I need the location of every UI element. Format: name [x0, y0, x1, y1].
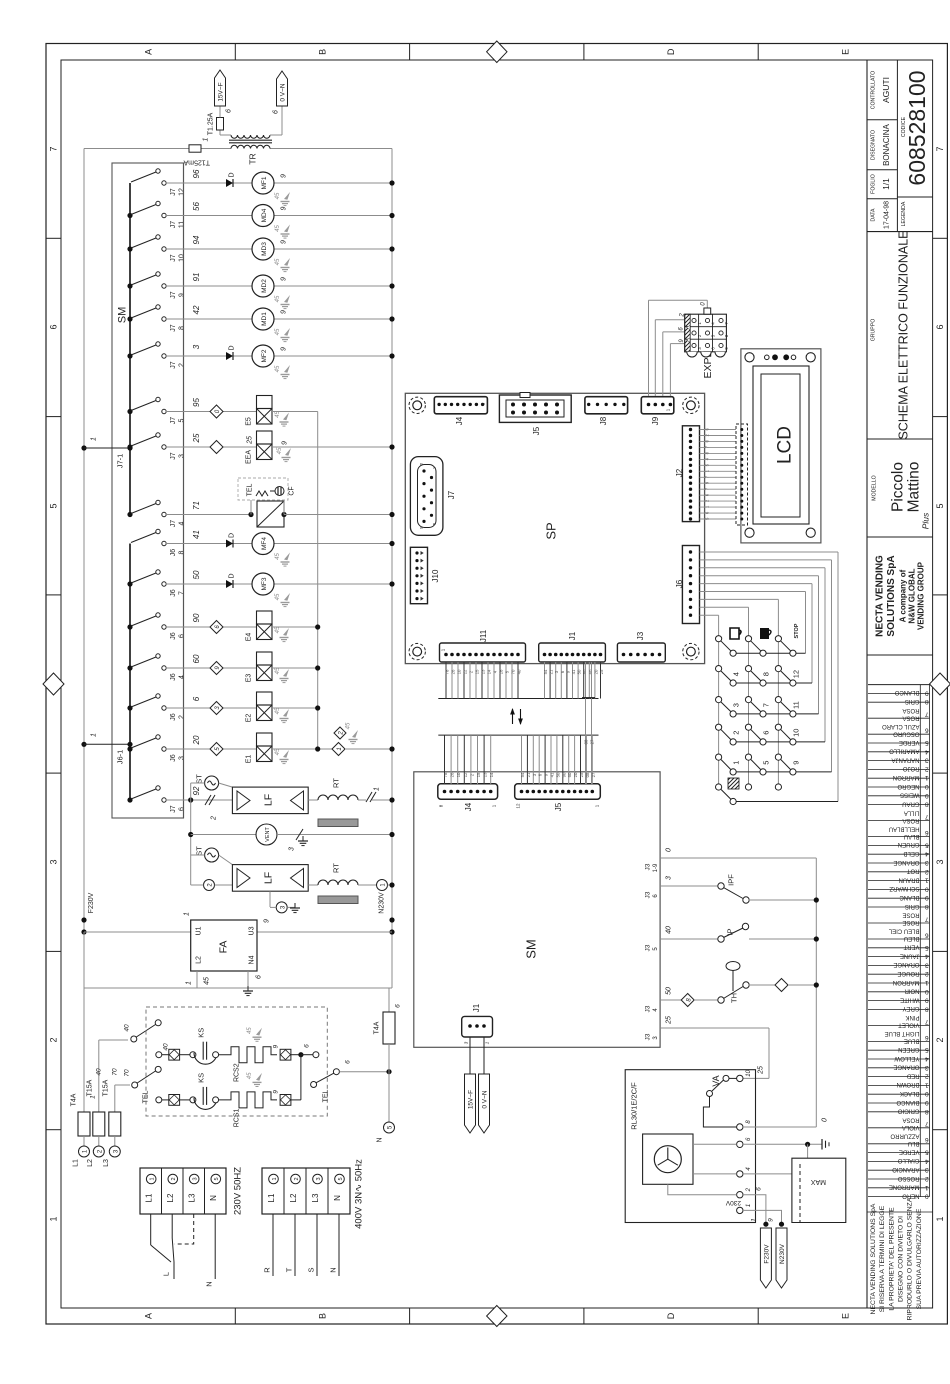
- svg-text:6: 6: [755, 1187, 762, 1191]
- switch J7-8: [127, 316, 132, 321]
- filter FA: [191, 920, 257, 971]
- svg-text:BLANCO: BLANCO: [894, 689, 919, 695]
- key row5 col1: [730, 769, 736, 775]
- svg-text:2: 2: [339, 731, 345, 736]
- svg-text:GRUPPO: GRUPPO: [870, 319, 876, 341]
- svg-text:E4: E4: [245, 633, 252, 642]
- svg-text:3: 3: [935, 859, 945, 864]
- svg-text:45: 45: [275, 225, 281, 232]
- wires bundle to J5 SM: [521, 735, 523, 784]
- centre registration diamond top: [487, 41, 507, 63]
- switch J6-7: [127, 581, 132, 586]
- svg-text:3: 3: [925, 859, 929, 866]
- svg-text:NECTA VENDING SOLUTIONS SpA: NECTA VENDING SOLUTIONS SpA: [870, 1203, 877, 1314]
- motor MF2: [252, 345, 274, 367]
- motor MF1: [252, 172, 274, 194]
- svg-text:9: 9: [280, 206, 287, 210]
- legend row 3 ORANGE: [868, 862, 930, 864]
- svg-text:J7: J7: [170, 361, 177, 369]
- svg-text:N: N: [376, 1137, 383, 1142]
- svg-text:78: 78: [445, 669, 450, 674]
- svg-text:GREY: GREY: [902, 1005, 919, 1011]
- svg-text:12: 12: [463, 772, 468, 777]
- svg-text:MD2: MD2: [261, 279, 268, 293]
- svg-text:92: 92: [192, 786, 201, 795]
- capacitor CF: [270, 490, 276, 492]
- title block frame: [866, 60, 868, 1308]
- svg-text:400V 3N∿ 50Hz: 400V 3N∿ 50Hz: [353, 1159, 364, 1229]
- svg-text:3: 3: [925, 1166, 929, 1173]
- svg-text:1: 1: [202, 137, 209, 141]
- flag 15V~F top: [215, 70, 226, 106]
- svg-text:TEL: TEL: [246, 483, 253, 496]
- svg-text:ROSA: ROSA: [902, 817, 919, 823]
- svg-text:BLEU: BLEU: [904, 935, 920, 941]
- svg-text:A company of: A company of: [898, 569, 907, 622]
- centre registration diamond bottom: [487, 1306, 507, 1327]
- svg-text:NOIR: NOIR: [904, 988, 920, 994]
- svg-text:12: 12: [463, 669, 468, 674]
- wire row MF3: [166, 583, 252, 585]
- legend row 8 GRIS: [868, 906, 930, 908]
- svg-text:5: 5: [178, 418, 185, 422]
- svg-text:T: T: [285, 1267, 294, 1272]
- wire row MD1: [166, 318, 252, 320]
- svg-text:1: 1: [91, 437, 98, 441]
- legend row 7 LILLA/ROSA: [868, 820, 930, 822]
- svg-text:2: 2: [935, 1037, 945, 1042]
- svg-text:BLU: BLU: [908, 1140, 920, 1146]
- svg-text:26: 26: [450, 772, 455, 777]
- legend row 0 SCHWARZ: [868, 888, 930, 890]
- svg-text:MF2: MF2: [261, 349, 268, 362]
- key row5 col2: [760, 769, 766, 775]
- svg-text:J7: J7: [170, 417, 177, 425]
- svg-text:CONTROLLATO: CONTROLLATO: [870, 71, 876, 109]
- svg-text:AMARILLO: AMARILLO: [889, 748, 920, 754]
- svg-text:VIOLA: VIOLA: [902, 1124, 920, 1130]
- heater LF lower: [232, 865, 308, 892]
- svg-text:9: 9: [280, 310, 287, 314]
- svg-text:IPF: IPF: [727, 874, 736, 886]
- wires J1 to flags: [469, 1037, 471, 1074]
- svg-text:J3: J3: [636, 631, 645, 640]
- svg-text:L: L: [162, 1272, 171, 1276]
- connector J8 SP: [585, 397, 628, 414]
- key row3 col3: [790, 711, 796, 717]
- legend row 5 GRUEN: [868, 844, 930, 846]
- fuse T1.25A: [217, 118, 224, 131]
- svg-text:J3: J3: [644, 863, 651, 870]
- svg-text:5: 5: [925, 1149, 929, 1156]
- svg-text:25: 25: [246, 436, 253, 445]
- svg-text:FA: FA: [218, 941, 230, 954]
- wire phase corner bottom: [83, 932, 85, 988]
- wire row MF2: [166, 355, 252, 357]
- legend row 0 NERO: [868, 1196, 930, 1198]
- svg-text:1: 1: [732, 761, 741, 765]
- svg-text:MF1: MF1: [261, 176, 268, 189]
- legend row 5 VERT: [868, 947, 930, 949]
- svg-text:MARRONE: MARRONE: [889, 1184, 920, 1190]
- svg-text:4: 4: [925, 1157, 929, 1164]
- svg-text:ARANCIO: ARANCIO: [892, 1166, 920, 1172]
- legend row 9 WHITE: [868, 1000, 930, 1002]
- mounting holes SP: [409, 397, 425, 413]
- legend row 6 HELLBLAU/BLAU: [868, 836, 930, 838]
- connector J5 SP: [499, 395, 571, 422]
- svg-text:45: 45: [247, 1072, 253, 1079]
- legend row 8 GREY: [868, 1008, 930, 1010]
- svg-text:25: 25: [666, 1016, 673, 1025]
- connector J4 SM: [438, 784, 498, 799]
- svg-text:SCHEMA ELETTRICO FUNZIONALE: SCHEMA ELETTRICO FUNZIONALE: [896, 230, 910, 439]
- key icon drink1: [730, 628, 741, 639]
- cable direction arrows: [512, 709, 514, 724]
- diode D row MF3: [226, 580, 233, 588]
- svg-text:6: 6: [272, 110, 279, 114]
- svg-text:50: 50: [555, 772, 560, 777]
- flag 0 V~N top: [277, 71, 288, 106]
- svg-text:45: 45: [275, 328, 281, 335]
- svg-text:J6-1: J6-1: [116, 750, 125, 765]
- svg-text:3: 3: [193, 1177, 199, 1180]
- wire row MF1: [166, 182, 252, 184]
- svg-text:1: 1: [49, 1216, 59, 1221]
- svg-text:TEL: TEL: [322, 1089, 329, 1102]
- switch J6-2: [127, 705, 132, 710]
- svg-text:J6: J6: [170, 754, 177, 762]
- key row1 col3: [790, 650, 796, 656]
- svg-text:2: 2: [925, 970, 929, 977]
- legend row 4 AMARILLO: [868, 751, 930, 753]
- svg-text:50: 50: [666, 987, 673, 995]
- svg-text:J3: J3: [644, 1005, 651, 1012]
- svg-text:LF: LF: [263, 794, 275, 806]
- svg-text:56: 56: [192, 202, 201, 211]
- svg-text:45: 45: [346, 722, 352, 729]
- svg-text:9: 9: [272, 1090, 279, 1094]
- svg-text:ORANGE: ORANGE: [893, 961, 919, 967]
- fan VENT: [190, 800, 192, 885]
- ground tap 3 lower: [269, 891, 271, 907]
- svg-text:14: 14: [489, 772, 494, 777]
- svg-text:LILLA: LILLA: [904, 809, 920, 815]
- svg-text:90: 90: [561, 772, 566, 777]
- svg-text:L3: L3: [103, 1159, 110, 1167]
- legend row 5 VERDE: [868, 742, 930, 744]
- wire row MD4: [166, 215, 252, 217]
- svg-text:MAX: MAX: [811, 1178, 827, 1185]
- svg-text:6: 6: [178, 807, 185, 811]
- svg-text:N4: N4: [248, 955, 255, 964]
- svg-text:OSCURO: OSCURO: [893, 730, 920, 736]
- svg-text:J1: J1: [568, 631, 577, 640]
- svg-text:0: 0: [925, 885, 929, 892]
- switch TEL 70 contact: [115, 1084, 130, 1086]
- solenoid valve E2: [257, 692, 273, 705]
- svg-text:D: D: [666, 1312, 676, 1319]
- svg-text:21: 21: [549, 669, 554, 674]
- wires J1 to bundle: [544, 662, 546, 699]
- svg-text:GIALLO: GIALLO: [897, 1157, 919, 1163]
- svg-text:RL30/1E/2C/F: RL30/1E/2C/F: [630, 1082, 639, 1130]
- contact TEL aux: [238, 478, 288, 500]
- svg-text:VERT: VERT: [903, 944, 919, 950]
- terminals L1 L2 L3 fused: [83, 1136, 85, 1146]
- key row4 col2: [760, 739, 766, 745]
- RL30 pin 4 wire to MAX: [743, 1173, 792, 1175]
- svg-text:VERDE: VERDE: [899, 1148, 920, 1154]
- switch J7-4: [127, 512, 132, 517]
- centre registration diamond left: [43, 673, 64, 695]
- svg-text:9: 9: [280, 347, 287, 351]
- legend row 9 BLANCO: [868, 692, 930, 694]
- svg-text:D: D: [228, 573, 235, 578]
- svg-text:1: 1: [183, 912, 190, 916]
- svg-text:NERO: NERO: [902, 1192, 920, 1198]
- svg-text:15: 15: [475, 669, 480, 674]
- svg-text:RT: RT: [332, 778, 341, 788]
- svg-text:54: 54: [543, 669, 548, 674]
- svg-text:ROSA: ROSA: [902, 707, 919, 713]
- svg-text:F230V: F230V: [88, 892, 95, 913]
- svg-text:54: 54: [520, 772, 525, 777]
- svg-text:LA PROPRIETA' DEL PRESENTE: LA PROPRIETA' DEL PRESENTE: [888, 1207, 895, 1311]
- key row3 col1: [730, 711, 736, 717]
- legend row 4 JAUNE: [868, 956, 930, 958]
- svg-text:0: 0: [925, 988, 929, 995]
- switch 40 contact: [99, 1039, 128, 1041]
- RL30 pin 6: [737, 1141, 743, 1147]
- svg-text:9: 9: [280, 277, 287, 281]
- svg-text:TR: TR: [248, 153, 258, 164]
- svg-text:8: 8: [925, 903, 929, 910]
- svg-text:11: 11: [792, 701, 801, 709]
- title field NECTA VENDING SOLUTIONS: [867, 654, 933, 656]
- RL30 pin 2: [737, 1192, 743, 1198]
- svg-text:90: 90: [582, 669, 587, 674]
- svg-text:F230V: F230V: [764, 1244, 771, 1264]
- svg-text:45: 45: [247, 1027, 253, 1034]
- svg-text:2: 2: [178, 363, 185, 367]
- key row4 col1: [730, 739, 736, 745]
- svg-text:3: 3: [925, 757, 929, 764]
- switch J7-5: [127, 409, 132, 414]
- valve EEA row: [166, 446, 210, 448]
- label F230V: [81, 917, 86, 922]
- svg-text:PINK: PINK: [905, 1014, 919, 1020]
- svg-text:E: E: [841, 49, 851, 55]
- heater LF upper: [232, 787, 308, 814]
- svg-text:E: E: [841, 1313, 851, 1319]
- svg-text:0 V~N: 0 V~N: [482, 1090, 489, 1109]
- connector J6 SP: [682, 546, 699, 624]
- solenoid valve E5: [257, 396, 273, 409]
- switch IPF: [660, 885, 718, 887]
- svg-text:3: 3: [732, 703, 741, 707]
- svg-text:VA: VA: [711, 1075, 721, 1086]
- svg-text:70: 70: [511, 669, 516, 674]
- svg-text:1: 1: [746, 1204, 752, 1207]
- svg-text:U3: U3: [248, 926, 255, 935]
- legend row 3 NARANJA: [868, 760, 930, 762]
- svg-text:RCS2: RCS2: [233, 1063, 240, 1082]
- legend row 5 GREEN: [868, 1049, 930, 1051]
- svg-text:2: 2: [210, 816, 217, 821]
- svg-text:J7-1: J7-1: [116, 454, 125, 469]
- svg-text:5: 5: [338, 1177, 344, 1180]
- wires J2 to LCD: [700, 429, 737, 431]
- key row6 col1: [730, 798, 736, 804]
- svg-text:L1: L1: [145, 1193, 154, 1202]
- svg-text:1: 1: [185, 981, 192, 985]
- RL30 pin 6 wire and ground: [743, 1143, 822, 1145]
- svg-text:4: 4: [925, 850, 929, 857]
- key row1 col2: [760, 650, 766, 656]
- svg-text:8: 8: [762, 672, 771, 676]
- key row2 col1: [730, 680, 736, 686]
- svg-text:J7: J7: [447, 490, 456, 499]
- svg-text:8: 8: [925, 801, 929, 808]
- svg-text:60: 60: [567, 772, 572, 777]
- svg-text:YELLOW: YELLOW: [894, 1055, 919, 1061]
- legend row 8 GRIGIO: [868, 1111, 930, 1113]
- diamond code 0 row E5: [210, 405, 223, 418]
- box RL30/1E/2C/F: [625, 1070, 755, 1223]
- svg-text:BLANC: BLANC: [899, 894, 920, 900]
- motor MD4: [252, 205, 274, 227]
- legend row 7 ROSE/ROSE: [868, 922, 930, 924]
- fuse T15A 40: [98, 1040, 100, 1112]
- svg-text:2: 2: [925, 1073, 929, 1080]
- svg-text:5: 5: [925, 739, 929, 746]
- svg-text:D: D: [228, 172, 235, 177]
- svg-text:1: 1: [925, 774, 929, 781]
- svg-text:E2: E2: [245, 714, 252, 723]
- legend row 7 ROSA/ROSA: [868, 717, 930, 719]
- terminal block 230V wires: [150, 1214, 152, 1245]
- solenoid valve E1: [257, 733, 273, 746]
- svg-text:10: 10: [456, 772, 461, 777]
- switch J7-2: [127, 353, 132, 358]
- LCD top pins: [765, 355, 770, 360]
- diamond code 9 row E3: [210, 662, 223, 675]
- svg-text:2: 2: [171, 1177, 177, 1180]
- svg-text:GRAU: GRAU: [902, 800, 919, 806]
- svg-text:VERDE: VERDE: [899, 739, 920, 745]
- svg-text:J4: J4: [455, 416, 464, 425]
- svg-text:4: 4: [925, 748, 929, 755]
- svg-text:608528100: 608528100: [904, 70, 930, 185]
- motor MF3: [252, 573, 274, 595]
- svg-text:BRAUN: BRAUN: [898, 876, 919, 882]
- svg-text:ROJO: ROJO: [903, 765, 920, 771]
- RL30 internal wires: [693, 1143, 737, 1145]
- node J6-1 feed: [81, 742, 86, 747]
- wire row MD3: [166, 248, 252, 250]
- svg-text:4: 4: [732, 672, 741, 676]
- svg-text:ROUGE: ROUGE: [897, 970, 919, 976]
- svg-text:J1: J1: [472, 1003, 481, 1012]
- terminal block 400V: [262, 1168, 350, 1214]
- svg-text:LF: LF: [263, 872, 275, 884]
- relay TEL row: [166, 514, 249, 516]
- svg-text:9: 9: [925, 689, 929, 696]
- svg-text:96: 96: [192, 169, 201, 178]
- svg-text:40: 40: [123, 1024, 130, 1032]
- svg-text:GRIS: GRIS: [905, 698, 920, 704]
- svg-text:ST: ST: [195, 774, 204, 784]
- svg-text:BIANCO: BIANCO: [896, 1099, 919, 1105]
- switch J7-3: [127, 444, 132, 449]
- svg-text:J7: J7: [170, 452, 177, 460]
- svg-text:J7: J7: [170, 291, 177, 299]
- legend row 3 ORANGE: [868, 964, 930, 966]
- svg-text:RCS1: RCS1: [233, 1108, 240, 1127]
- svg-text:MD1: MD1: [261, 312, 268, 326]
- svg-text:E1: E1: [245, 755, 252, 764]
- wire colour legend table: [868, 684, 930, 686]
- svg-text:J7: J7: [170, 324, 177, 332]
- svg-text:D: D: [228, 533, 235, 538]
- FA ground N4: [247, 971, 249, 986]
- svg-text:6: 6: [925, 727, 929, 734]
- svg-text:EEA: EEA: [245, 450, 252, 464]
- diode D row MF1: [226, 179, 233, 187]
- svg-text:ROSSO: ROSSO: [897, 1175, 919, 1181]
- svg-text:T4A: T4A: [71, 1093, 78, 1106]
- svg-text:45: 45: [277, 447, 283, 454]
- svg-text:0: 0: [925, 1193, 929, 1200]
- svg-text:TH: TH: [730, 993, 739, 1003]
- svg-text:J7: J7: [170, 188, 177, 196]
- svg-text:S: S: [307, 1267, 316, 1272]
- svg-text:7: 7: [49, 146, 59, 151]
- svg-text:AZUL CLARO: AZUL CLARO: [882, 723, 920, 729]
- svg-text:9: 9: [178, 293, 185, 297]
- terminal N5: [384, 1122, 395, 1133]
- svg-text:6: 6: [49, 324, 59, 329]
- svg-text:RIPRODURLO O DIVULGARLO SENZA: RIPRODURLO O DIVULGARLO SENZA: [907, 1197, 914, 1320]
- svg-text:50: 50: [577, 669, 582, 674]
- svg-text:2: 2: [294, 1177, 300, 1180]
- svg-text:6: 6: [925, 931, 929, 938]
- svg-text:ST: ST: [195, 846, 204, 856]
- svg-text:J6: J6: [675, 579, 684, 588]
- diamond code 3 row E2: [210, 702, 223, 715]
- svg-text:12: 12: [792, 670, 801, 678]
- thermostat TH: [660, 999, 681, 1001]
- bundle break lines: [438, 698, 598, 700]
- motor MD1: [252, 308, 274, 330]
- svg-text:IP: IP: [726, 928, 735, 935]
- svg-text:T15A: T15A: [87, 1079, 94, 1096]
- wire row E4: [166, 626, 210, 628]
- svg-text:GRUEN: GRUEN: [898, 841, 920, 847]
- svg-text:SM: SM: [116, 307, 128, 324]
- svg-text:7: 7: [762, 703, 771, 707]
- svg-text:EXP: EXP: [702, 357, 714, 378]
- svg-text:1-9: 1-9: [653, 863, 659, 872]
- svg-text:9: 9: [280, 174, 287, 178]
- svg-text:2: 2: [746, 1187, 752, 1192]
- connector J1 SP: [539, 643, 606, 662]
- svg-text:MARRON: MARRON: [893, 979, 920, 985]
- svg-text:5: 5: [935, 503, 945, 508]
- svg-text:6: 6: [935, 324, 945, 329]
- keyboard matrix: [733, 652, 806, 654]
